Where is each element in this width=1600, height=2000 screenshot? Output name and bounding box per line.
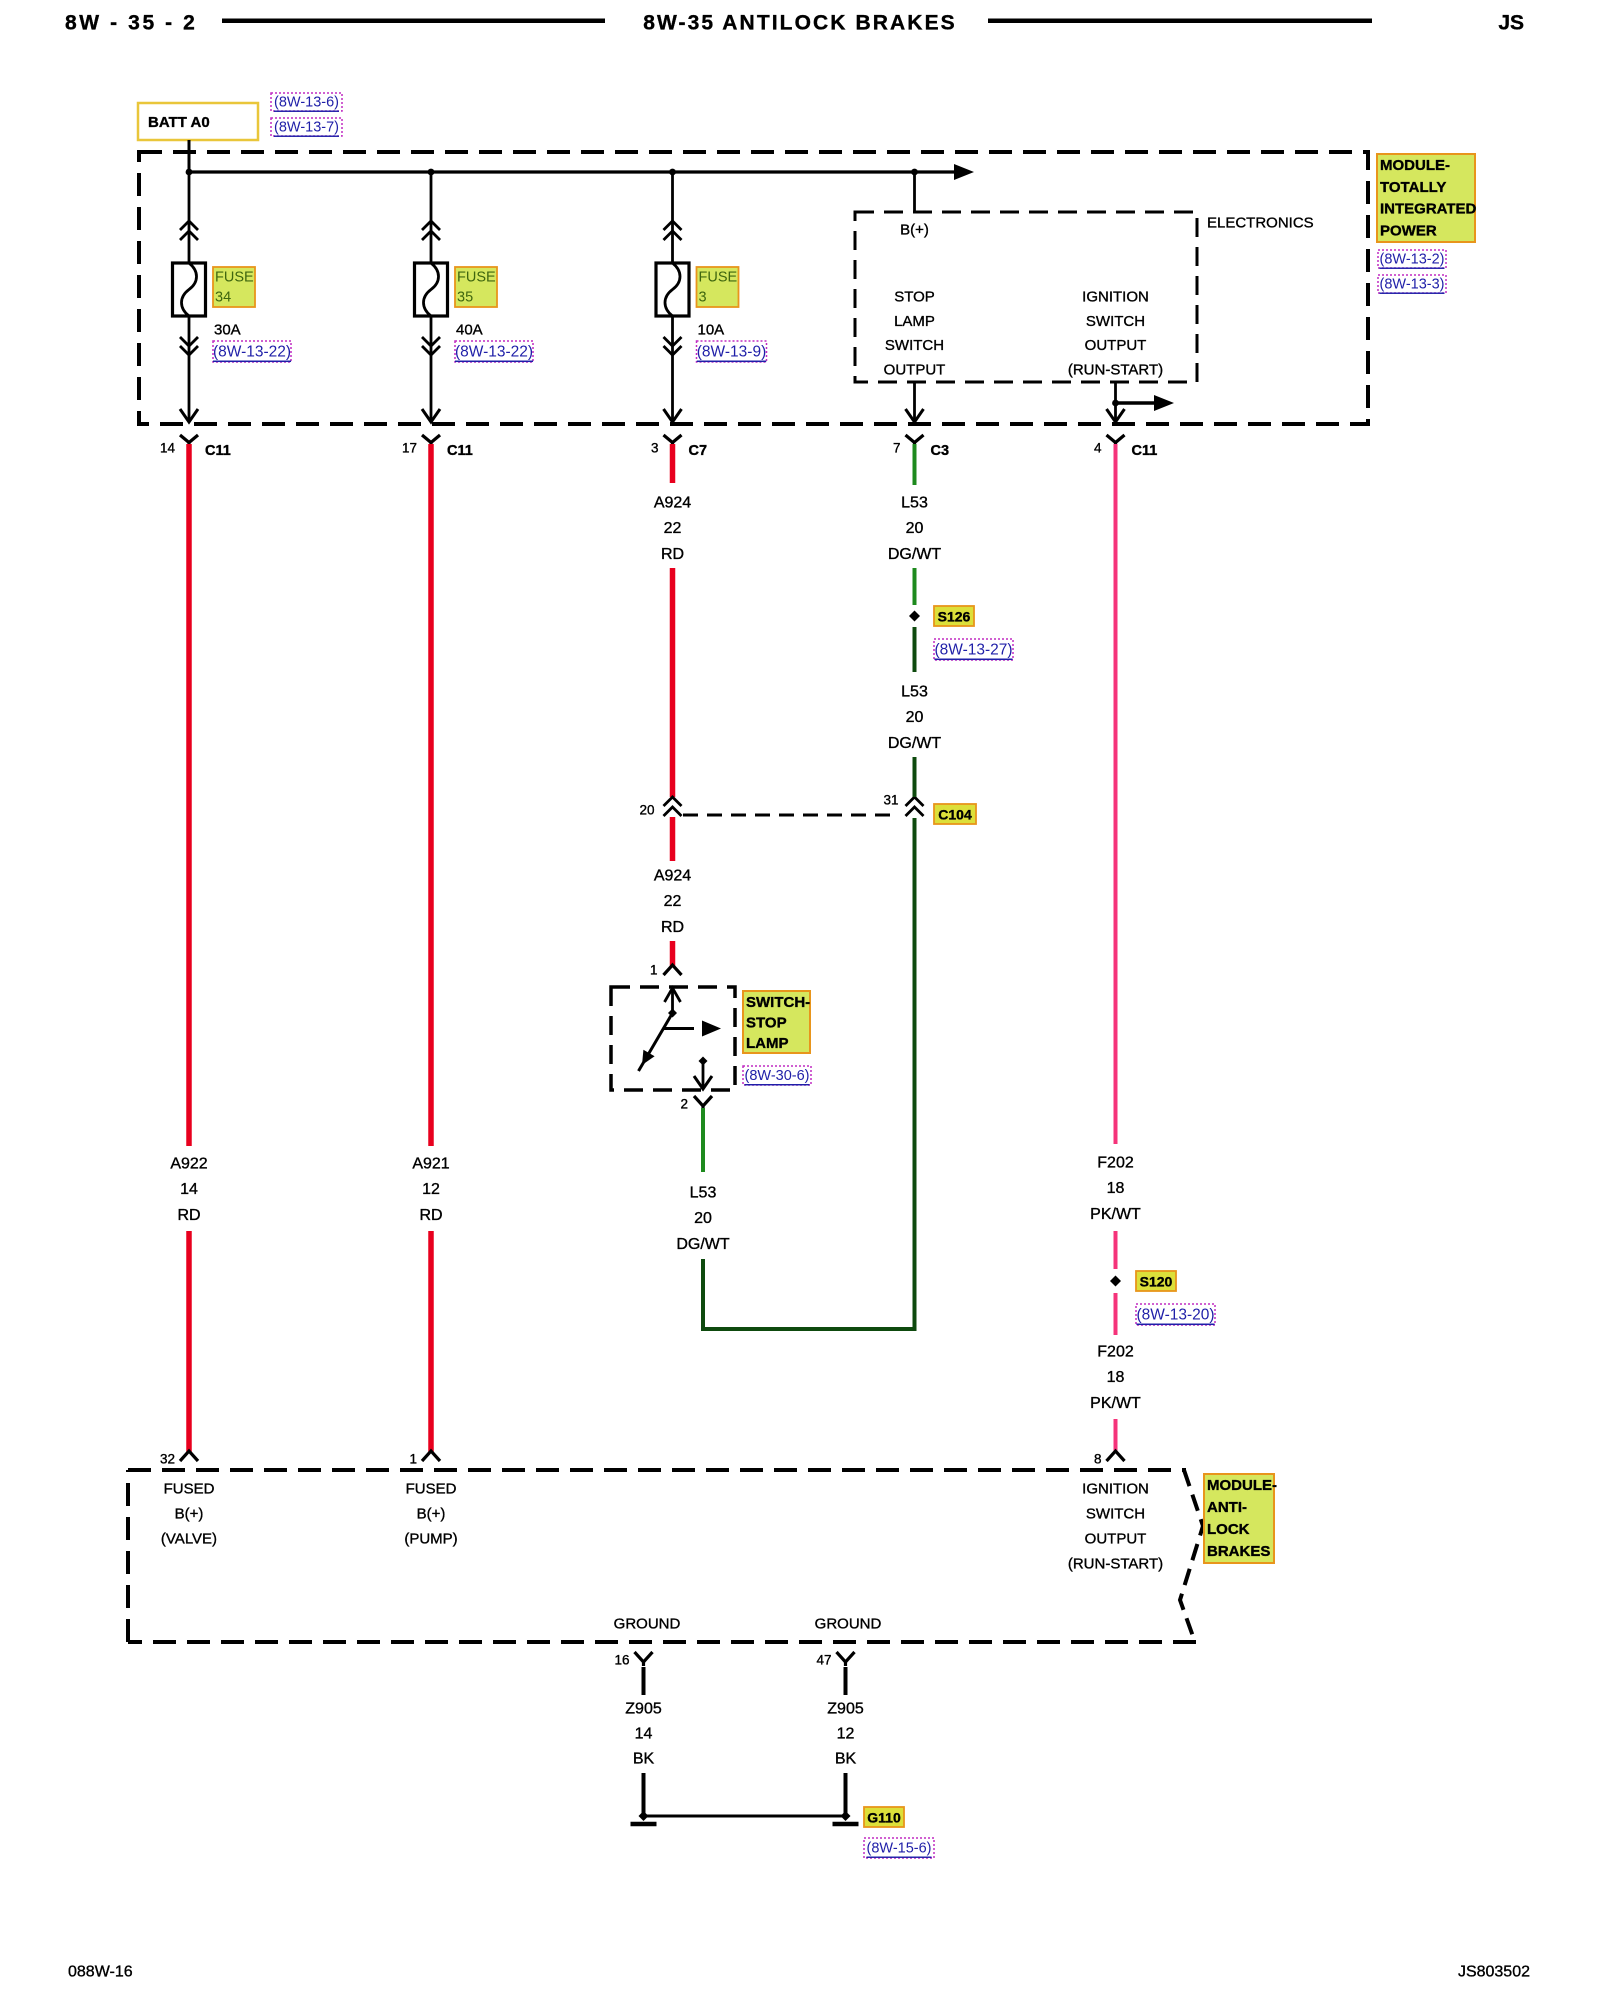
svg-text:2: 2 [680, 1097, 688, 1112]
wire battery drop to bus [188, 140, 191, 172]
battery feed label BATT A0 [138, 103, 258, 140]
wire A921 12 RD lower run [428, 1231, 434, 1453]
svg-text:20: 20 [639, 803, 654, 818]
svg-text:(8W-13-2): (8W-13-2) [1380, 252, 1445, 268]
chevrons below fuse 3 [664, 337, 682, 346]
svg-text:(8W-13-6): (8W-13-6) [274, 95, 339, 111]
svg-text:BRAKES: BRAKES [1207, 1543, 1270, 1560]
svg-text:A924: A924 [654, 868, 691, 885]
wire A922 14 RD upper run [186, 444, 192, 1146]
in-line connector C104 pin 31 chevrons [906, 797, 924, 806]
node bus/fuse35 [428, 169, 435, 176]
svg-text:POWER: POWER [1380, 222, 1437, 239]
svg-text:(8W-30-6): (8W-30-6) [745, 1068, 810, 1084]
svg-text:Z905: Z905 [625, 1701, 662, 1718]
arrow into TIPM edge (pin 7) [906, 409, 924, 422]
svg-text:C7: C7 [689, 443, 708, 459]
svg-text:B(+): B(+) [417, 1506, 446, 1523]
connector pin 3 C7 [664, 435, 682, 443]
svg-text:1: 1 [409, 1452, 417, 1467]
svg-text:088W-16: 088W-16 [68, 1964, 133, 1981]
svg-text:DG/WT: DG/WT [888, 735, 942, 752]
svg-text:B(+): B(+) [900, 222, 929, 239]
svg-text:14: 14 [635, 1726, 653, 1743]
svg-text:OUTPUT: OUTPUT [1085, 337, 1147, 354]
B+ bus wire [189, 170, 954, 173]
svg-text:RD: RD [661, 546, 684, 563]
svg-text:(RUN-START): (RUN-START) [1068, 361, 1163, 378]
header rule right [988, 19, 1372, 24]
fuse 35 symbol [415, 263, 448, 316]
link (8W-13-22) [213, 341, 291, 362]
pin 16 (ABS ground) [635, 1652, 653, 1662]
pin 47 (ABS ground) [837, 1652, 855, 1662]
svg-text:14: 14 [180, 1181, 198, 1198]
svg-text:C11: C11 [447, 443, 473, 459]
svg-text:1: 1 [650, 963, 658, 978]
svg-text:FUSE: FUSE [215, 270, 254, 286]
svg-text:C11: C11 [205, 443, 231, 459]
chevrons above fuse 3 [664, 221, 682, 230]
svg-text:PK/WT: PK/WT [1090, 1395, 1141, 1412]
node bus/fuse34 [186, 169, 193, 176]
link (8W-13-7) [271, 118, 342, 136]
pin 1 (ABS) [422, 1451, 440, 1461]
svg-text:RD: RD [419, 1207, 442, 1224]
svg-text:LOCK: LOCK [1207, 1521, 1250, 1538]
wire bus to electronics [913, 172, 916, 212]
wire L53 stub below pin 7 [913, 444, 917, 485]
splice S126 [909, 611, 920, 622]
svg-text:JS: JS [1498, 12, 1524, 35]
svg-text:(8W-13-22): (8W-13-22) [455, 344, 533, 361]
module TIPM dashed outline [139, 152, 1368, 424]
wire Z905 14 BK upper [642, 1667, 646, 1695]
link (8W-15-6) [864, 1838, 934, 1858]
splice label S120 [1136, 1271, 1176, 1291]
connector pin 14 C11 [180, 435, 198, 443]
chevrons below fuse 34 [180, 337, 198, 346]
switch pin 2 [694, 1096, 712, 1106]
switch contact from pin 1 [665, 988, 681, 1002]
svg-text:L53: L53 [690, 1185, 717, 1202]
module label: MODULE-ANTI-LOCK BRAKES [1204, 1474, 1274, 1563]
connector pin 17 C11 [422, 435, 440, 443]
svg-text:BK: BK [835, 1751, 857, 1768]
svg-text:L53: L53 [901, 684, 928, 701]
svg-text:S126: S126 [938, 609, 971, 625]
header rule left [222, 19, 605, 24]
svg-text:3: 3 [699, 290, 707, 306]
fuse 3 symbol [656, 263, 689, 316]
wire bus to fuse 3 [671, 172, 674, 263]
svg-text:SWITCH: SWITCH [1086, 1506, 1145, 1523]
svg-text:(VALVE): (VALVE) [161, 1531, 217, 1548]
svg-text:(8W-13-27): (8W-13-27) [934, 642, 1012, 659]
svg-text:20: 20 [694, 1210, 712, 1227]
svg-text:(RUN-START): (RUN-START) [1068, 1556, 1163, 1573]
svg-text:ANTI-: ANTI- [1207, 1499, 1247, 1516]
wire L53 20 DG/WT from switch [701, 1108, 705, 1172]
connector pin 7 C3 [906, 435, 924, 443]
node bus/fuse3 [669, 169, 676, 176]
svg-text:35: 35 [457, 290, 473, 306]
wire ignition switch output to pin 4 [1114, 382, 1117, 422]
link (8W-13-6) [271, 93, 342, 111]
electronics inner dashed box [855, 212, 1197, 382]
svg-text:14: 14 [160, 441, 176, 456]
svg-text:40A: 40A [456, 322, 483, 339]
wire A924 22 RD to switch pin 1 [670, 941, 676, 967]
wire F202 to splice S120 [1114, 1231, 1118, 1269]
svg-text:(8W-13-9): (8W-13-9) [697, 344, 766, 361]
switch label: SWITCH-STOP LAMP [743, 991, 810, 1053]
svg-text:ELECTRONICS: ELECTRONICS [1207, 215, 1314, 232]
svg-text:G110: G110 [867, 1810, 901, 1826]
svg-text:SWITCH: SWITCH [1086, 313, 1145, 330]
switch pin 1 [664, 965, 682, 975]
wire L53 to splice S126 [913, 568, 917, 605]
connector pin 4 C11 [1107, 435, 1125, 443]
svg-text:JS803502: JS803502 [1458, 1964, 1530, 1981]
svg-text:32: 32 [160, 1452, 175, 1467]
chevrons above fuse 35 [422, 221, 440, 230]
svg-text:(8W-13-22): (8W-13-22) [213, 344, 291, 361]
link (8W-30-6) [743, 1066, 811, 1085]
wire bus to fuse 34 [188, 172, 191, 263]
svg-text:PK/WT: PK/WT [1090, 1206, 1141, 1223]
svg-text:RD: RD [661, 919, 684, 936]
chevrons above fuse 34 [180, 221, 198, 230]
switch actuation arrow [663, 1027, 694, 1030]
svg-text:20: 20 [906, 520, 924, 537]
wire A922 14 RD lower run [186, 1231, 192, 1453]
svg-text:(8W-13-20): (8W-13-20) [1136, 1307, 1214, 1324]
svg-text:16: 16 [614, 1653, 629, 1668]
arrow into TIPM edge (fuse 34) [180, 409, 198, 422]
wire Z905 14 BK lower [642, 1773, 646, 1816]
svg-text:4: 4 [1094, 441, 1102, 456]
svg-text:31: 31 [883, 793, 898, 808]
svg-text:MODULE-: MODULE- [1207, 1477, 1277, 1494]
wire fuse 3 to pin [671, 316, 674, 422]
svg-text:22: 22 [664, 893, 682, 910]
switch blade (open) [639, 1013, 673, 1071]
link (8W-13-9) [697, 341, 767, 362]
fuse 3 label [697, 267, 739, 307]
module label: MODULE-TOTALLY INTEGRATED POWER [1377, 154, 1475, 242]
splice label S126 [934, 606, 974, 626]
dashed connector tie line C104 [683, 814, 898, 817]
chevrons below fuse 35 [422, 337, 440, 346]
arrow into TIPM edge (fuse 35) [422, 409, 440, 422]
svg-text:TOTALLY: TOTALLY [1380, 179, 1446, 196]
svg-text:S120: S120 [1140, 1274, 1173, 1290]
svg-text:B(+): B(+) [175, 1506, 204, 1523]
link (8W-13-22) [455, 341, 533, 362]
svg-text:34: 34 [215, 290, 231, 306]
wire F202 below S120 [1114, 1293, 1118, 1335]
svg-text:GROUND: GROUND [815, 1616, 882, 1633]
branch arrow right (run-start feed) [1116, 401, 1155, 404]
svg-text:(8W-13-3): (8W-13-3) [1380, 277, 1445, 293]
svg-text:C3: C3 [931, 443, 950, 459]
wire A924 22 RD stub below pin 3 [670, 444, 676, 483]
svg-text:LAMP: LAMP [894, 313, 935, 330]
svg-text:FUSED: FUSED [406, 1481, 457, 1498]
pin 32 (ABS) [180, 1451, 198, 1461]
svg-text:STOP: STOP [746, 1015, 787, 1032]
svg-text:F202: F202 [1097, 1155, 1134, 1172]
svg-text:SWITCH-: SWITCH- [746, 994, 810, 1011]
svg-text:8: 8 [1094, 1452, 1102, 1467]
svg-text:7: 7 [893, 441, 901, 456]
fuse 34 symbol [173, 263, 206, 316]
svg-text:20: 20 [906, 709, 924, 726]
wire A924 22 RD to C104 [670, 568, 676, 797]
wire bus to fuse 35 [430, 172, 433, 263]
svg-text:INTEGRATED: INTEGRATED [1380, 201, 1477, 218]
svg-text:(PUMP): (PUMP) [404, 1531, 457, 1548]
fuse 35 label [455, 267, 497, 307]
wire A921 12 RD upper run [428, 444, 434, 1146]
svg-text:OUTPUT: OUTPUT [884, 361, 946, 378]
svg-text:FUSE: FUSE [457, 270, 496, 286]
svg-text:30A: 30A [214, 322, 241, 339]
in-line connector C104 pin 20 chevrons [664, 797, 682, 806]
ground label G110 [864, 1807, 904, 1827]
svg-text:LAMP: LAMP [746, 1035, 789, 1052]
svg-text:C11: C11 [1132, 443, 1158, 459]
svg-text:(8W-15-6): (8W-15-6) [867, 1841, 932, 1857]
svg-text:8W - 35 - 2: 8W - 35 - 2 [65, 12, 197, 35]
svg-text:12: 12 [837, 1726, 855, 1743]
svg-text:3: 3 [651, 441, 659, 456]
svg-text:STOP: STOP [894, 289, 935, 306]
svg-text:GROUND: GROUND [614, 1616, 681, 1633]
wire L53 below S126 [913, 627, 917, 672]
svg-text:FUSED: FUSED [164, 1481, 215, 1498]
node bus/electronics [911, 169, 918, 176]
pin 8 (ABS) [1107, 1451, 1125, 1461]
svg-text:Z905: Z905 [827, 1701, 864, 1718]
wire L53 into C104 [913, 757, 917, 797]
svg-text:BATT A0: BATT A0 [148, 114, 210, 131]
wire L53 elbow run to C104 branch [703, 818, 915, 1329]
wire Z905 12 BK lower [844, 1773, 848, 1816]
switch pivot dot [668, 1009, 677, 1018]
svg-text:A922: A922 [170, 1156, 207, 1173]
svg-text:17: 17 [402, 441, 417, 456]
svg-text:SWITCH: SWITCH [885, 337, 944, 354]
svg-text:BK: BK [633, 1751, 655, 1768]
svg-text:F202: F202 [1097, 1344, 1134, 1361]
bus arrowhead [954, 164, 974, 180]
link (8W-13-3) [1378, 275, 1446, 293]
connector label C104 [934, 804, 976, 824]
wire F202 to ABS pin 8 [1114, 1419, 1118, 1453]
fuse 34 label [213, 267, 255, 307]
svg-text:OUTPUT: OUTPUT [1085, 1531, 1147, 1548]
module ABS dashed outline [128, 1468, 1186, 1472]
svg-text:MODULE-: MODULE- [1380, 157, 1450, 174]
svg-text:47: 47 [816, 1653, 831, 1668]
ground junction G110 left [639, 1811, 649, 1821]
svg-text:RD: RD [177, 1207, 200, 1224]
node ignition output branch [1112, 400, 1119, 407]
wire stop lamp switch output to pin 7 [913, 382, 916, 422]
wire A924 22 RD below C104 [670, 817, 676, 861]
link (8W-13-20) [1136, 1304, 1215, 1325]
ground bus wire [644, 1815, 846, 1818]
switch-stop lamp dashed box [611, 987, 735, 1090]
svg-text:DG/WT: DG/WT [676, 1236, 730, 1253]
svg-text:10A: 10A [698, 322, 725, 339]
svg-text:FUSE: FUSE [699, 270, 738, 286]
svg-text:A924: A924 [654, 495, 691, 512]
wire fuse 34 to pin [188, 316, 191, 422]
wire F202 18 PK/WT upper run [1114, 444, 1118, 1144]
svg-text:IGNITION: IGNITION [1082, 289, 1149, 306]
arrow into TIPM edge (fuse 3) [664, 409, 682, 422]
svg-text:A921: A921 [412, 1156, 449, 1173]
svg-text:18: 18 [1107, 1180, 1125, 1197]
svg-text:C104: C104 [938, 807, 972, 823]
svg-text:12: 12 [422, 1181, 440, 1198]
svg-text:8W-35 ANTILOCK BRAKES: 8W-35 ANTILOCK BRAKES [643, 12, 957, 35]
svg-text:IGNITION: IGNITION [1082, 1481, 1149, 1498]
svg-text:18: 18 [1107, 1369, 1125, 1386]
wire Z905 12 BK upper [844, 1667, 848, 1695]
link (8W-13-2) [1378, 250, 1446, 268]
svg-text:DG/WT: DG/WT [888, 546, 942, 563]
ground junction G110 right [841, 1811, 851, 1821]
svg-text:(8W-13-7): (8W-13-7) [274, 120, 339, 136]
arrow into TIPM edge (pin 4) [1107, 409, 1125, 422]
link (8W-13-27) [934, 639, 1013, 660]
switch output contact [699, 1057, 708, 1066]
splice S120 [1110, 1276, 1121, 1287]
svg-text:22: 22 [664, 520, 682, 537]
wire fuse 35 to pin [430, 316, 433, 422]
svg-text:L53: L53 [901, 495, 928, 512]
